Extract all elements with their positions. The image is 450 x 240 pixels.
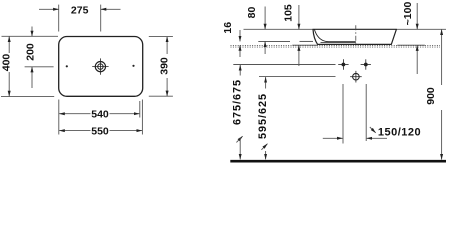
basin outline [59, 37, 143, 97]
dimension 900 [441, 30, 443, 160]
svg-text:~100: ~100 [402, 2, 414, 26]
svg-text:550: 550 [91, 125, 109, 137]
centerline [355, 25, 357, 43]
extension line from left fixing hole [342, 84, 344, 144]
rim level extension line [244, 28, 314, 30]
fixing hole left [338, 59, 348, 69]
bowl bottom level line right [397, 44, 425, 46]
svg-text:400: 400 [0, 54, 12, 72]
drain level line [259, 76, 336, 78]
dimension 16 [239, 30, 241, 57]
svg-text:900: 900 [425, 87, 437, 105]
dimension ~100 [416, 3, 418, 74]
fixing holes level line [233, 64, 335, 66]
dimension 400 [1, 36, 58, 96]
bowl interior section lines [314, 30, 355, 42]
svg-text:150/120: 150/120 [378, 126, 421, 138]
svg-text:595/625: 595/625 [257, 93, 269, 139]
bowl outline [313, 29, 396, 44]
dimension 675/675 [236, 65, 242, 159]
dimension 595/625 [261, 77, 267, 159]
dimension 275 [39, 5, 121, 32]
drain [350, 71, 362, 83]
dimension 150/120 [323, 127, 387, 138]
svg-text:200: 200 [25, 43, 37, 61]
counter section dotted row 2 [231, 46, 441, 48]
svg-text:390: 390 [158, 57, 170, 75]
right side dot [132, 65, 134, 67]
fixing hole right [361, 59, 371, 69]
svg-text:80: 80 [246, 7, 258, 19]
svg-text:675/675: 675/675 [232, 79, 244, 125]
dimension 80 [264, 7, 266, 55]
dimension 550 [59, 100, 142, 135]
bowl bottom level line left [292, 44, 317, 46]
dimension 540 [59, 100, 140, 135]
extension line from right fixing hole [365, 84, 367, 141]
floor line [230, 160, 446, 163]
dimension 390 [149, 37, 173, 97]
faucet hole symbol [92, 58, 108, 74]
dimension 200 [25, 27, 54, 89]
svg-text:540: 540 [91, 109, 109, 121]
svg-text:105: 105 [283, 4, 295, 22]
left side dot [66, 65, 68, 67]
counter section dotted row 1 [231, 44, 441, 46]
counter top line [258, 40, 290, 42]
svg-text:275: 275 [71, 4, 89, 16]
svg-text:16: 16 [222, 22, 234, 34]
dimension 105 [298, 5, 300, 66]
